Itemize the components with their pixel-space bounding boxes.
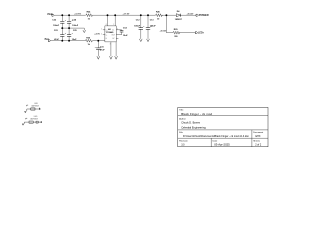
ground [139,39,142,42]
ground [24,112,26,113]
junction C31 [97,40,99,42]
junction C24 C25 [68,27,70,29]
svg-text:+9.05V: +9.05V [160,31,167,33]
LED body [31,108,35,110]
svg-text:Celestial Engineering: Celestial Engineering [181,125,206,129]
svg-text:LED+: LED+ [198,32,205,35]
ground [83,28,86,32]
resistor R25 [85,39,93,42]
polarity plus marks [65,20,153,49]
port mark [27,105,28,106]
junction dots [61,14,167,41]
capacitor C24 [67,15,71,28]
pin tick [39,108,41,109]
label LED2 [30,116,38,121]
wire pin8 to rail [107,15,109,26]
junction U4 pin 1 [114,14,116,16]
junction C13 top [147,14,149,16]
svg-text:03-Apr-2025: 03-Apr-2025 [214,143,230,147]
resistor R24 [85,14,93,17]
port mark [26,118,27,119]
svg-text:1: 1 [113,24,114,26]
wire mid rail [62,27,84,29]
svg-text:Sheets: Sheets [253,140,261,143]
wire cap to pin [116,34,121,36]
ground [22,124,24,125]
svg-text:47uF: 47uF [54,38,59,41]
junction C23 bottom [61,40,63,42]
junction C25 bottom [68,40,70,42]
svg-text:100uF: 100uF [134,26,141,28]
schematic small text [45,10,209,51]
svg-text:+9.75V: +9.75V [74,14,81,16]
junction C22 top [61,14,63,16]
capacitor C25 [67,28,71,41]
ground [115,56,118,59]
svg-text:+17.9V: +17.9V [123,14,130,16]
junction C22 C23 [61,27,63,29]
wire [181,14,197,16]
resistor R26 [155,14,162,17]
svg-text:47uF: 47uF [100,48,105,51]
wire [93,14,155,16]
pin stub left 4 [103,34,105,36]
wire [27,108,40,110]
ground [147,39,150,42]
svg-text:POWER: POWER [199,13,209,17]
svg-text:10uF: 10uF [72,39,77,41]
wire [26,109,28,111]
wire pin1 to rail [114,15,116,26]
svg-text:D:\Users\Chuck\Documents\Black: D:\Users\Chuck\Documents\Black Finger - … [183,135,249,138]
junction LED branch [165,14,167,16]
svg-text:+9.52V: +9.52V [187,14,194,16]
pin numbers [101,24,118,46]
svg-text:EHX: EHX [256,135,261,138]
wire [23,122,25,124]
svg-text:8: 8 [106,24,107,26]
svg-text:Pwr: Pwr [45,39,49,41]
ground [110,56,113,59]
LED subassembly 2 [22,116,42,125]
svg-text:10uF: 10uF [123,35,128,37]
svg-text:Author: Author [179,117,186,120]
svg-text:Chuck D. Bones: Chuck D. Bones [181,120,200,124]
capacitor C13 [146,15,150,39]
svg-text:Document: Document [253,131,263,134]
pin stub right 5 [116,29,121,31]
svg-text:4: 4 [101,33,102,35]
capacitor C23 [60,28,64,41]
wire top rail [54,14,85,16]
title block [178,107,268,146]
LED subassembly 1 [24,103,40,113]
svg-text:OUT: OUT [112,34,115,36]
resistor R29 [173,31,180,34]
svg-text:V+: V+ [112,29,114,31]
svg-text:3: 3 [110,44,111,46]
wire [162,14,177,16]
svg-text:100uF: 100uF [53,25,60,27]
port 9Vdc [52,14,54,16]
junction C24 top [68,14,70,16]
resistor body [36,121,38,123]
diode D4 [176,14,180,17]
svg-text:+4.9V: +4.9V [94,33,100,36]
wire [93,40,105,42]
pin stub left 2 [103,29,105,31]
port PwrS [48,40,50,42]
wire bottom rail [50,40,85,42]
pin stub right 6 [116,38,118,40]
svg-text:2: 2 [101,28,102,30]
svg-text:2 of 2: 2 of 2 [255,144,262,147]
port POWER [196,14,198,16]
wire [179,32,195,34]
capacitor C12 [139,15,143,39]
IC pin name labels [106,29,116,40]
capacitor C31 [96,41,100,57]
junction U4 pin 8 [107,14,109,16]
LED body [29,121,33,123]
svg-text:C+: C+ [106,29,108,31]
svg-text:Revision: Revision [179,141,188,143]
svg-text:1N5817: 1N5817 [175,19,183,21]
svg-text:9Vdc: 9Vdc [47,14,53,16]
svg-text:100nF: 100nF [72,25,79,27]
capacitor C14 [120,30,124,35]
wire drop to LED branch [165,15,167,33]
wire gnd pin [115,42,117,56]
junction C12 top [140,14,142,16]
wire gnd pin3 [110,42,112,56]
port LED+ [195,32,197,34]
label LED1 [31,103,39,107]
wire [166,32,172,34]
wire [24,121,42,123]
ground [97,56,100,59]
svg-text:5: 5 [117,28,118,30]
capacitor C22 [60,15,64,28]
svg-text:Black Finger - ck mod: Black Finger - ck mod [181,112,212,116]
IC U4 TC1044S [105,26,116,42]
